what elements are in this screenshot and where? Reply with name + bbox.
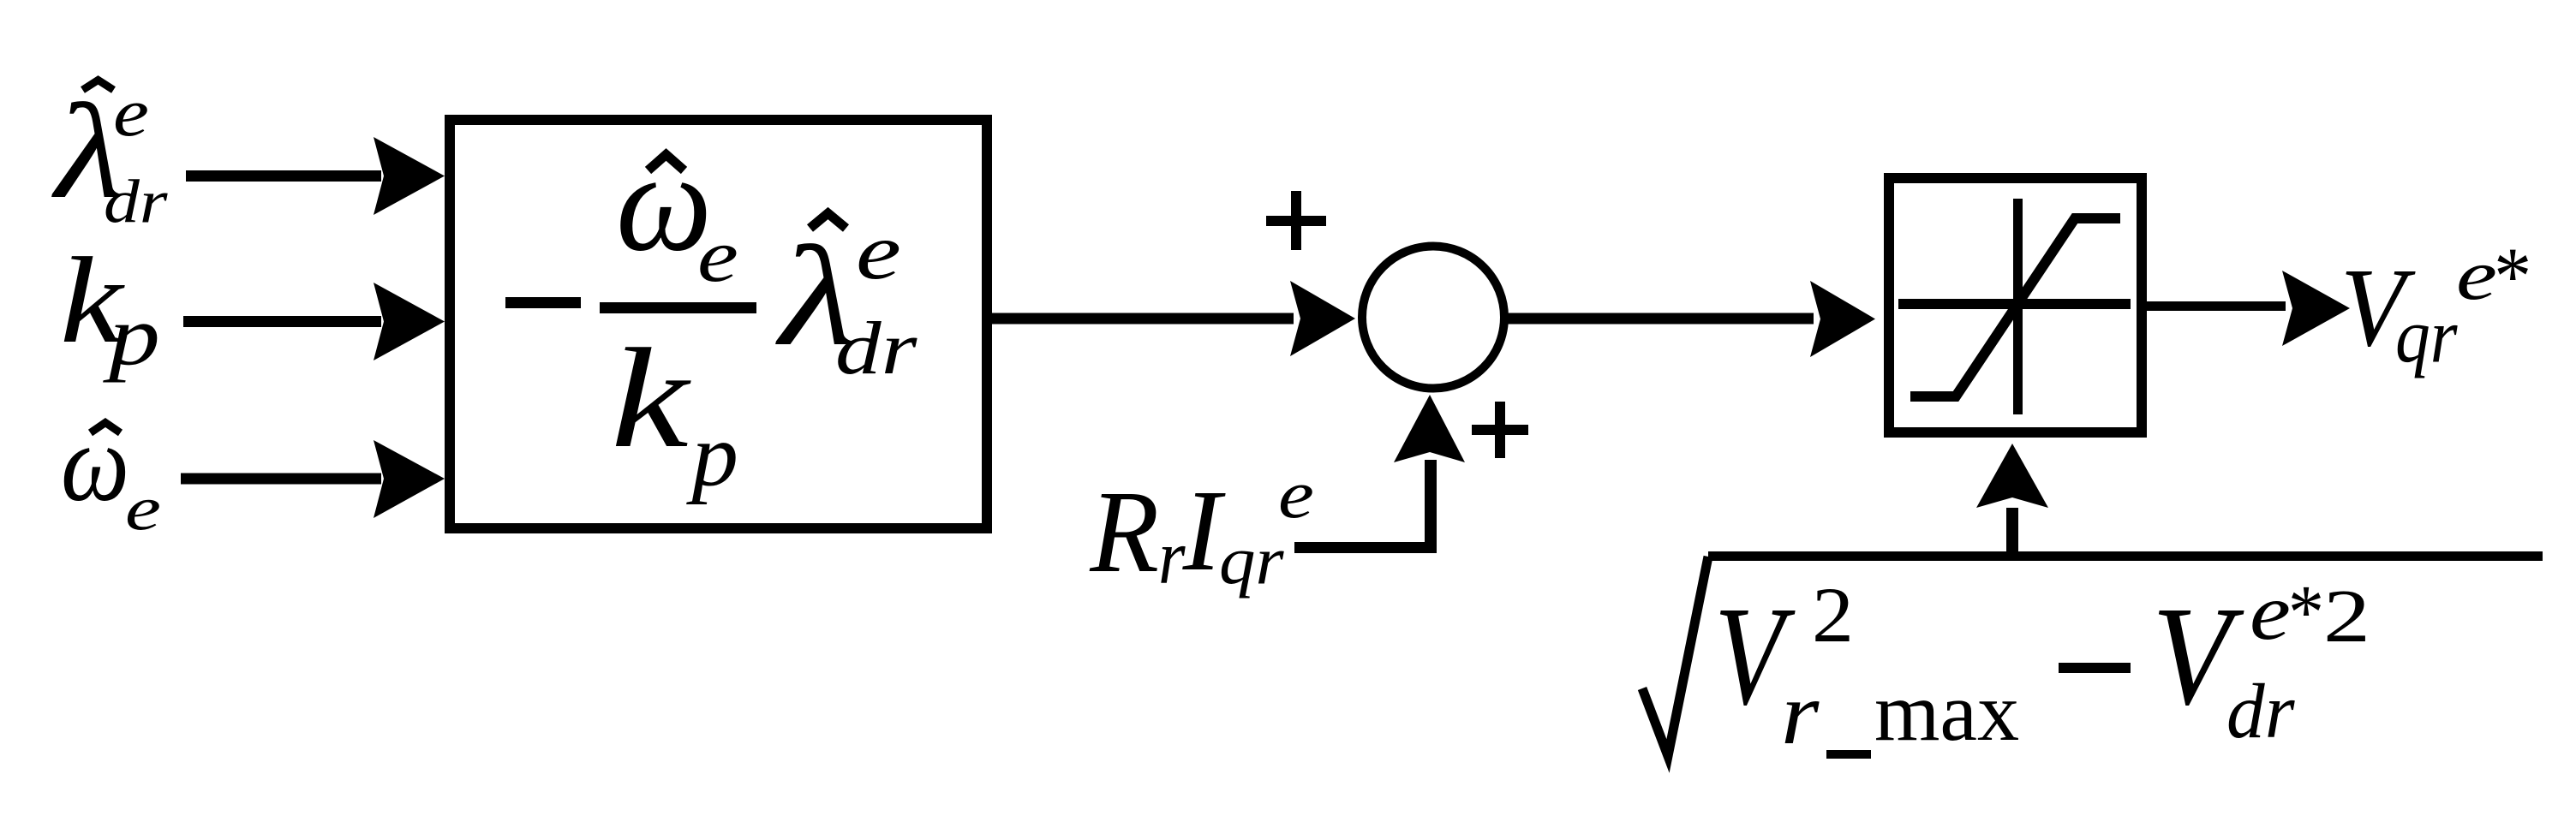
svg-text:e: e bbox=[113, 74, 149, 150]
svg-text:e: e bbox=[856, 207, 901, 296]
summing junction S1 bbox=[1362, 247, 1504, 389]
factor lambda_dr_hat_e bbox=[775, 207, 918, 390]
limiter block U1 bbox=[1889, 178, 2142, 432]
output label Vqr e* bbox=[2340, 230, 2529, 378]
wire input 3 bbox=[181, 474, 381, 485]
wire gain block to summing junction bbox=[992, 313, 1294, 325]
svg-text:max: max bbox=[1874, 666, 2019, 759]
svg-text:ω: ω bbox=[61, 402, 129, 524]
svg-text:dr: dr bbox=[2226, 669, 2295, 754]
svg-text:qr: qr bbox=[1219, 522, 1284, 599]
square root radical bbox=[1642, 557, 1708, 756]
svg-text:R: R bbox=[1089, 468, 1159, 598]
limiter saturation curve bbox=[1910, 218, 2120, 396]
limiter vertical axis bbox=[2013, 199, 2023, 414]
arrowhead output bbox=[2282, 271, 2350, 346]
svg-text:r: r bbox=[1781, 664, 1820, 763]
svg-text:2: 2 bbox=[2323, 574, 2370, 658]
svg-text:2: 2 bbox=[1812, 571, 1854, 659]
limiter horizontal axis bbox=[1898, 299, 2131, 309]
arrowhead input 3 bbox=[374, 440, 445, 518]
svg-text:e: e bbox=[1278, 456, 1314, 532]
svg-text:dr: dr bbox=[104, 167, 168, 235]
wire from Rr Iqr label bbox=[1294, 542, 1437, 553]
plus sign bottom bbox=[1472, 402, 1528, 458]
arrowhead into limiter bbox=[1810, 281, 1875, 357]
arrowhead into summing junction bbox=[1290, 281, 1355, 356]
wire vertical into summing junction bbox=[1425, 460, 1437, 553]
arrowhead up into limiter bbox=[1976, 444, 2048, 508]
svg-text:e: e bbox=[697, 215, 738, 298]
wire input 1 bbox=[186, 170, 381, 182]
denominator k_p bbox=[611, 319, 738, 505]
svg-text:e: e bbox=[125, 474, 161, 543]
arrowhead input 1 bbox=[374, 137, 445, 215]
svg-text:p: p bbox=[685, 406, 738, 505]
square root bar bbox=[1708, 551, 2543, 561]
plus sign top bbox=[1266, 191, 1326, 250]
svg-text:p: p bbox=[103, 289, 160, 383]
numerator omega_hat_e bbox=[616, 123, 738, 298]
gain block G1 bbox=[450, 120, 987, 528]
input label lambda_dr_hat_e bbox=[51, 74, 168, 235]
svg-text:qr: qr bbox=[2395, 293, 2458, 379]
arrowhead up into summing junction bbox=[1394, 395, 1465, 462]
svg-text:dr: dr bbox=[835, 307, 917, 390]
input label k_p bbox=[60, 232, 160, 384]
arrowhead input 2 bbox=[374, 283, 445, 360]
label V squared r_max bbox=[1714, 571, 2019, 763]
svg-text:*: * bbox=[2285, 569, 2321, 654]
svg-text:k: k bbox=[611, 319, 691, 477]
minus sign in gain block bbox=[505, 297, 581, 308]
wire limiter to output bbox=[2147, 301, 2286, 311]
svg-text:*: * bbox=[2490, 230, 2529, 321]
fraction bar bbox=[600, 302, 756, 313]
input label omega_hat_e bbox=[61, 402, 161, 544]
wire input 2 bbox=[183, 316, 381, 327]
wire summing junction to limiter bbox=[1506, 313, 1814, 325]
svg-text:r: r bbox=[1158, 513, 1186, 600]
label Vdr e*2 bbox=[2152, 568, 2370, 755]
minus sign under radical bbox=[2059, 663, 2131, 673]
wire vertical into limiter bottom bbox=[2006, 508, 2018, 561]
label Rr Iqr e bbox=[1089, 456, 1314, 600]
